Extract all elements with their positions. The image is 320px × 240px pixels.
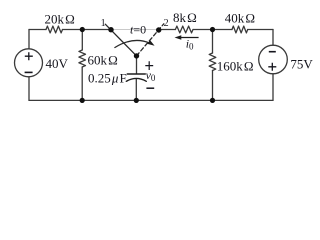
- switch arc arrowhead: [147, 40, 154, 46]
- wire capacitor to bottom rail: [135, 79, 137, 101]
- wire 40k to top-right corner: [248, 29, 273, 31]
- wire 60k top lead: [81, 30, 83, 51]
- resistor R 40k zigzag: [232, 26, 248, 33]
- capacitor minus sign: [146, 87, 154, 89]
- wire left edge upper: [28, 30, 30, 49]
- svg-text:1: 1: [101, 18, 106, 29]
- wire switch pivot to capacitor: [136, 56, 138, 74]
- svg-text:v0: v0: [146, 68, 156, 83]
- source V1 minus sign: [25, 71, 33, 73]
- node 1 dot: [108, 27, 113, 32]
- wire 160k top lead: [212, 30, 214, 54]
- wire right edge upper: [272, 30, 274, 46]
- wire 60k bottom lead: [81, 67, 83, 100]
- resistor R 20k zigzag: [46, 26, 63, 33]
- junction dot 60k bottom: [80, 98, 85, 103]
- svg-text:75V: 75V: [290, 57, 313, 72]
- switch blade to position 1: [105, 24, 136, 56]
- capacitor C curved plate: [126, 78, 146, 81]
- wire 20k to node1: [63, 29, 111, 31]
- junction dot capacitor bottom: [134, 98, 139, 103]
- resistor R 8k zigzag: [175, 26, 193, 33]
- node 2 dot: [156, 27, 161, 32]
- svg-text:0.25 μ F: 0.25 μ F: [88, 70, 127, 85]
- svg-text:40k Ω: 40k Ω: [225, 10, 255, 25]
- junction dot 160k top: [210, 27, 215, 32]
- svg-text:20k Ω: 20k Ω: [45, 12, 75, 27]
- source V2 minus sign: [269, 51, 276, 53]
- resistor R 160k zigzag: [209, 53, 216, 71]
- switch contact gap line: [111, 29, 159, 31]
- svg-text:2: 2: [164, 18, 169, 29]
- source V2 plus sign: [268, 63, 276, 71]
- svg-text:160k Ω: 160k Ω: [217, 58, 254, 73]
- wire 8k to junction B: [193, 29, 232, 31]
- wire 160k bottom lead: [212, 71, 214, 101]
- svg-text:t=0: t=0: [130, 23, 146, 37]
- junction dot 60k top: [80, 27, 85, 32]
- switch pivot dot: [134, 53, 139, 58]
- svg-text:8k Ω: 8k Ω: [173, 10, 197, 25]
- wire left edge lower: [28, 77, 30, 101]
- switch motion arc: [115, 40, 150, 47]
- resistor R 60k zigzag: [79, 50, 86, 67]
- junction dot 160k bottom: [210, 98, 215, 103]
- voltage source V1 40V circle: [15, 49, 43, 77]
- source V1 plus sign: [25, 52, 33, 60]
- switch blade to position 2: [137, 24, 164, 56]
- wire top-left segment: [29, 29, 46, 31]
- capacitor plus sign: [145, 61, 153, 70]
- svg-text:i0: i0: [186, 36, 194, 51]
- voltage source V2 75V circle: [259, 45, 288, 74]
- svg-text:60k Ω: 60k Ω: [88, 53, 118, 68]
- current arrow i0: [175, 35, 199, 40]
- capacitor C top plate: [127, 73, 145, 75]
- wire bottom rail: [29, 99, 273, 101]
- svg-text:40V: 40V: [46, 56, 69, 71]
- wire right edge lower: [272, 74, 274, 101]
- wire node2 to 8k: [159, 29, 176, 31]
